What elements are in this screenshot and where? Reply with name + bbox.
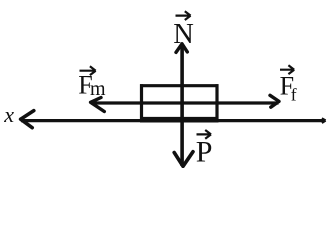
svg-text:N: N xyxy=(173,19,194,50)
N arrowhead (up) xyxy=(176,44,187,53)
x-axis right small arrowhead xyxy=(322,118,326,122)
svg-text:P: P xyxy=(196,136,213,169)
P arrowhead (down) xyxy=(174,152,193,167)
label F_m with vector arrow xyxy=(78,66,106,100)
F_f arrowhead (right) xyxy=(270,95,279,107)
wire vertical force line (N to P) xyxy=(180,45,184,167)
label F_f with vector arrow xyxy=(280,65,297,104)
block (box on surface) xyxy=(140,84,219,120)
svg-text:m: m xyxy=(90,78,106,100)
svg-text:x: x xyxy=(3,102,14,127)
F_m arrowhead (left) xyxy=(91,98,105,112)
label N with vector arrow xyxy=(173,11,194,50)
svg-text:f: f xyxy=(291,84,297,104)
x-axis left arrowhead xyxy=(21,111,34,128)
wire horizontal force line (F_m to F_f) xyxy=(91,101,279,104)
label P with vector arrow xyxy=(196,130,213,169)
wire ground line (x-axis surface) xyxy=(21,119,324,122)
